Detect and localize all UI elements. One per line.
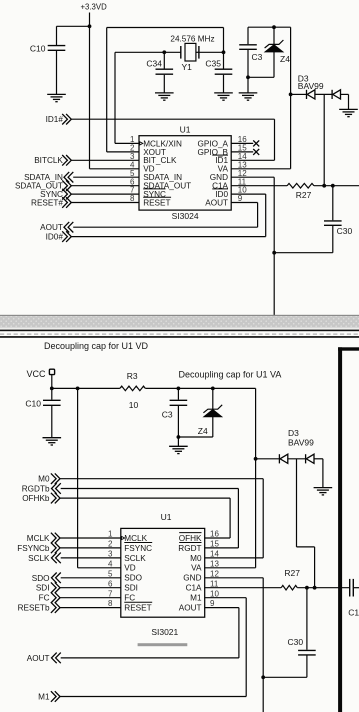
node GND / C30 return bbox=[272, 251, 276, 255]
node crystal-left / C34 bbox=[162, 50, 166, 54]
svg-text:4: 4 bbox=[108, 559, 113, 568]
wire SYNC to pin 7 bbox=[71, 193, 139, 195]
wire pin10 M1 route bbox=[205, 597, 247, 599]
wire FSYNCb to pin 2 bbox=[60, 547, 121, 549]
wire D3b to ground bbox=[341, 93, 349, 95]
svg-text:10: 10 bbox=[129, 400, 139, 410]
pin 1 arrowhead (bottom) bbox=[122, 536, 125, 539]
wire clamp mid-node down to R27 bbox=[323, 94, 325, 185]
wire pin15 GPIO_B stub bbox=[231, 151, 253, 153]
svg-text:SCLK: SCLK bbox=[124, 554, 146, 563]
wire M0 to pin 14 bbox=[60, 478, 263, 480]
svg-text:10: 10 bbox=[210, 589, 219, 598]
wire D3a to D3b bbox=[315, 93, 332, 95]
wire VA to D3a (bottom) bbox=[256, 458, 280, 460]
node VA / D3 (bottom) bbox=[254, 457, 258, 461]
svg-text:R3: R3 bbox=[127, 371, 138, 381]
svg-text:BAV99: BAV99 bbox=[298, 81, 324, 91]
resistor R27 (top) bbox=[287, 183, 314, 188]
svg-text:C34: C34 bbox=[146, 59, 162, 69]
wire pin16 GPIO_A stub bbox=[231, 142, 253, 144]
svg-text:7: 7 bbox=[108, 589, 113, 598]
svg-text:M1: M1 bbox=[190, 594, 202, 603]
diode D3a bbox=[307, 90, 315, 99]
svg-text:VA: VA bbox=[191, 564, 202, 573]
wire to ground (C3 bottom) bbox=[177, 437, 179, 446]
wire SCLK to pin 3 bbox=[61, 557, 121, 559]
svg-text:AOUT: AOUT bbox=[40, 223, 63, 232]
wire C30 bottom to GND rail (bottom) bbox=[263, 676, 307, 678]
svg-text:C10: C10 bbox=[30, 43, 46, 53]
divider: scrollbar + window borders bbox=[0, 315, 359, 316]
node crystal-right / C35 bbox=[222, 50, 226, 54]
svg-text:9: 9 bbox=[238, 194, 243, 203]
no-connect X pin16 bbox=[253, 140, 259, 146]
svg-text:RESETb: RESETb bbox=[18, 604, 50, 613]
svg-text:14: 14 bbox=[210, 550, 219, 559]
wire Z4 anode to C3 (bottom) bbox=[178, 436, 212, 438]
op IC U1 SI3024 body bbox=[139, 136, 231, 210]
wire SDATA_IN to pin 5 bbox=[73, 176, 139, 178]
node +3.3VD / C10 junction bbox=[88, 24, 92, 28]
op IC U1 SI3021 body bbox=[121, 528, 205, 617]
node Z4 top (bottom section) bbox=[211, 387, 215, 391]
wire RGDTb to pin 15 bbox=[61, 488, 239, 490]
wire VA clamp rail top bbox=[248, 26, 291, 28]
node R27/clamp bbox=[322, 184, 326, 188]
wire SDO to pin 5 bbox=[61, 577, 121, 579]
wire +3.3VD vertical to pin 4 VD bbox=[89, 13, 91, 169]
ground (C3/Z4 bottom) bbox=[169, 446, 188, 453]
svg-text:6: 6 bbox=[108, 579, 113, 588]
svg-text:RESET: RESET bbox=[143, 198, 170, 207]
svg-text:AOUT: AOUT bbox=[205, 198, 228, 207]
svg-text:OFHKb: OFHKb bbox=[22, 494, 50, 503]
svg-text:BAV99: BAV99 bbox=[288, 438, 314, 448]
node Z4 top bbox=[272, 25, 276, 29]
wire ID0# to pin 10 bbox=[71, 236, 265, 238]
node C3/Z4 bottom junction bbox=[246, 75, 250, 79]
wire VA down to pin 13 (bottom) bbox=[255, 388, 257, 567]
svg-text:MCLK: MCLK bbox=[27, 534, 50, 543]
svg-text:R27: R27 bbox=[284, 568, 300, 578]
wire FC to pin 7 bbox=[60, 597, 121, 599]
svg-text:C3: C3 bbox=[162, 410, 173, 420]
ground (D3 bottom) bbox=[314, 488, 333, 495]
ground (D3) bbox=[339, 109, 358, 116]
ground (C34) bbox=[155, 93, 174, 100]
svg-text:FSYNC: FSYNC bbox=[124, 544, 152, 553]
svg-text:15: 15 bbox=[210, 540, 219, 549]
wire RESET# to pin 8 bbox=[71, 202, 139, 204]
no-connect X pin15 bbox=[253, 149, 259, 155]
svg-text:M0: M0 bbox=[38, 475, 50, 484]
wire C3 to ground bbox=[247, 77, 249, 92]
capacitor C34 bbox=[163, 52, 165, 68]
wire R3 to VA corner bbox=[145, 387, 255, 389]
svg-text:SCLK: SCLK bbox=[28, 554, 50, 563]
svg-text:13: 13 bbox=[210, 559, 219, 568]
node VCC junction bbox=[50, 387, 54, 391]
wire pin11 C1A to R27 (bottom) bbox=[205, 587, 282, 589]
wire pin9 AOUT route bbox=[205, 607, 239, 609]
svg-text:8: 8 bbox=[108, 599, 113, 608]
wire RESETb to pin 8 bbox=[60, 607, 121, 609]
ground (C10 bottom) bbox=[43, 438, 62, 445]
svg-text:OFHK: OFHK bbox=[179, 534, 202, 543]
svg-text:ID0#: ID0# bbox=[46, 233, 64, 242]
svg-text:AOUT: AOUT bbox=[179, 604, 202, 613]
wire pin11 C1A to R27 bbox=[231, 185, 287, 187]
svg-text:SDI: SDI bbox=[36, 584, 50, 593]
svg-text:C30: C30 bbox=[337, 226, 353, 236]
diode D3b (bottom) bbox=[306, 454, 314, 463]
wire BITCLK to pin 3 bbox=[71, 159, 139, 161]
svg-text:RGDTb: RGDTb bbox=[22, 485, 50, 494]
heavy schematic frame border right bbox=[338, 347, 342, 712]
ground (C10) bbox=[47, 94, 66, 101]
zener Z4 bbox=[273, 27, 275, 44]
capacitor C1 bbox=[350, 579, 354, 597]
wire D3a to D3b (bottom) bbox=[288, 458, 306, 460]
svg-text:C10: C10 bbox=[25, 398, 41, 408]
zener Z4 (bottom) bbox=[212, 388, 214, 409]
pin 1 arrowhead bbox=[140, 142, 143, 145]
wire AOUT to pin 9 bbox=[73, 226, 257, 228]
wire VA to D3a bbox=[291, 93, 307, 95]
svg-text:1: 1 bbox=[108, 530, 113, 539]
gray bar under SI3021 bbox=[138, 643, 188, 646]
node R27/C30 (bottom) bbox=[305, 586, 309, 590]
svg-text:R27: R27 bbox=[296, 190, 312, 200]
node VD branch bbox=[76, 387, 80, 391]
svg-text:Z4: Z4 bbox=[280, 54, 290, 64]
wire XOUT net: pin2 up and over crystal bbox=[107, 27, 224, 29]
svg-text:24.576 MHz: 24.576 MHz bbox=[170, 34, 214, 43]
wire GND pin12 down (bottom) bbox=[205, 577, 264, 579]
capacitor C30 (bottom) bbox=[306, 588, 308, 650]
wire SDI to pin 6 bbox=[60, 587, 121, 589]
svg-text:C1A: C1A bbox=[186, 584, 202, 593]
svg-text:9: 9 bbox=[210, 599, 215, 608]
svg-text:12: 12 bbox=[210, 569, 219, 578]
svg-text:ID1#: ID1# bbox=[46, 115, 64, 124]
svg-text:RESET#: RESET# bbox=[31, 198, 63, 207]
svg-text:SI3021: SI3021 bbox=[151, 627, 178, 637]
svg-text:U1: U1 bbox=[161, 512, 172, 522]
svg-text:C3: C3 bbox=[252, 52, 263, 62]
svg-text:U1: U1 bbox=[180, 125, 191, 135]
capacitor C10 bbox=[56, 26, 58, 45]
capacitor C3 (bottom) bbox=[177, 388, 179, 399]
svg-text:+3.3VD: +3.3VD bbox=[81, 3, 108, 12]
wire XIN net: pin1 to crystal left bbox=[115, 51, 181, 53]
node R27/clamp (bottom) bbox=[313, 586, 317, 590]
ground (C3/Z4) bbox=[239, 93, 258, 100]
wire VD branch down to pin 4 bbox=[77, 388, 79, 567]
wire GND pin12 down bbox=[231, 176, 274, 178]
capacitor C35 bbox=[223, 52, 225, 68]
node VA / D3 junction bbox=[289, 93, 293, 97]
node GND / C30 return (bottom) bbox=[261, 675, 265, 679]
svg-text:GND: GND bbox=[183, 574, 201, 583]
svg-text:VCC: VCC bbox=[26, 369, 46, 379]
wire VA rail down to pin 13 bbox=[290, 27, 292, 169]
wire C10 to +3.3VD rail bbox=[57, 25, 90, 27]
wire OFHKb to pin 16 bbox=[60, 497, 230, 499]
wire MCLK to pin 1 bbox=[60, 537, 121, 539]
svg-text:C35: C35 bbox=[205, 59, 221, 69]
capacitor C3 bbox=[247, 27, 249, 44]
svg-text:Z4: Z4 bbox=[198, 426, 208, 436]
svg-text:Decoupling cap for U1 VA: Decoupling cap for U1 VA bbox=[179, 369, 282, 379]
svg-text:2: 2 bbox=[108, 540, 113, 549]
svg-text:RGDT: RGDT bbox=[178, 544, 201, 553]
wire R27 to C1 bbox=[297, 587, 349, 589]
svg-text:8: 8 bbox=[130, 194, 135, 203]
svg-text:FC: FC bbox=[39, 594, 50, 603]
wire crystal right to C35 bbox=[199, 51, 224, 53]
capacitor C10 (bottom) bbox=[51, 388, 53, 399]
svg-text:5: 5 bbox=[108, 569, 113, 578]
wire D3b to ground (bottom) bbox=[314, 458, 323, 460]
svg-text:RESET: RESET bbox=[124, 604, 151, 613]
wire VCC rail to R3 bbox=[52, 387, 120, 389]
svg-text:11: 11 bbox=[210, 579, 219, 588]
svg-text:SI3024: SI3024 bbox=[172, 211, 199, 221]
svg-text:Y1: Y1 bbox=[182, 62, 193, 72]
svg-text:SDO: SDO bbox=[32, 574, 50, 583]
svg-text:C30: C30 bbox=[288, 637, 304, 647]
svg-text:16: 16 bbox=[210, 530, 219, 539]
diode D3b bbox=[332, 90, 340, 99]
svg-text:M1: M1 bbox=[38, 693, 50, 702]
node C3 top bbox=[177, 387, 181, 391]
node C3/Z4 bottom bbox=[177, 435, 181, 439]
svg-text:VD: VD bbox=[124, 564, 135, 573]
svg-text:Decoupling cap for U1 VD: Decoupling cap for U1 VD bbox=[44, 341, 149, 351]
diode D3a (bottom) bbox=[279, 454, 287, 463]
wire R27 right to edge bbox=[314, 185, 359, 187]
ground (C35) bbox=[214, 93, 233, 100]
svg-text:BITCLK: BITCLK bbox=[34, 156, 63, 165]
svg-text:SDO: SDO bbox=[124, 574, 142, 583]
svg-text:C1: C1 bbox=[348, 607, 359, 617]
wire Z4 anode to C3 bbox=[248, 76, 274, 78]
capacitor C30 (top) bbox=[332, 186, 334, 221]
svg-text:3: 3 bbox=[108, 550, 113, 559]
svg-text:M0: M0 bbox=[190, 554, 202, 563]
wire C30 bottom to GND rail bbox=[274, 252, 333, 254]
node R27/C30 bbox=[331, 184, 335, 188]
wire ID1# to pin 14 bbox=[71, 118, 274, 120]
wire clamp mid-node down to R27 (bottom) bbox=[296, 459, 298, 547]
svg-text:FSYNCb: FSYNCb bbox=[17, 544, 50, 553]
svg-text:SDI: SDI bbox=[124, 584, 138, 593]
wire SDATA_OUT to pin 6 bbox=[71, 185, 139, 187]
svg-text:MCLK: MCLK bbox=[124, 534, 147, 543]
svg-text:FC: FC bbox=[124, 594, 135, 603]
svg-text:AOUT: AOUT bbox=[27, 654, 50, 663]
